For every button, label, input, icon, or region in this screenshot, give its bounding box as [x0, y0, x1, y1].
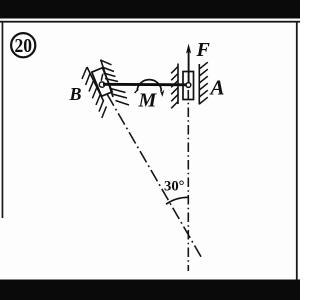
force F shaft [188, 50, 190, 85]
force F arrowhead [186, 44, 191, 54]
guide left line B [87, 67, 104, 101]
hatch strokes right guide A [199, 62, 208, 104]
guide right line B [101, 60, 113, 98]
right frame line [296, 22, 298, 281]
top black bar [0, 0, 300, 19]
support B inclined guides [82, 60, 129, 119]
30 degree angle arc [166, 197, 188, 204]
svg-text:30°: 30° [164, 179, 185, 195]
bottom black bar [0, 280, 300, 300]
svg-text:M: M [138, 90, 158, 112]
guide right line A [198, 64, 200, 105]
slider axis dash above pin B [101, 74, 103, 81]
hatch strokes right guide B [101, 60, 129, 105]
svg-text:B: B [69, 84, 82, 104]
moment M arc [137, 80, 161, 91]
slider rectangle B (rotated 22deg) [92, 68, 112, 96]
slider rectangle A [183, 72, 194, 100]
hatch strokes left guide B [82, 67, 106, 118]
pin B circle [99, 82, 104, 87]
svg-text:20: 20 [15, 35, 33, 57]
svg-text:A: A [209, 76, 225, 100]
inclined dash-dot axis through B [107, 95, 202, 260]
left frame line [2, 22, 4, 218]
beam from B to A [103, 83, 188, 86]
top frame line [0, 21, 300, 23]
support A guides [171, 62, 208, 108]
guide left line A [177, 64, 179, 105]
pin A circle [186, 83, 191, 88]
vertical dash-dot axis through A [187, 90, 189, 271]
problem number badge circle [11, 33, 35, 57]
hatch strokes left guide A [171, 67, 178, 109]
moment M arrowhead [160, 90, 165, 97]
moment M arc tail tick [135, 89, 139, 93]
svg-text:F: F [196, 39, 211, 61]
